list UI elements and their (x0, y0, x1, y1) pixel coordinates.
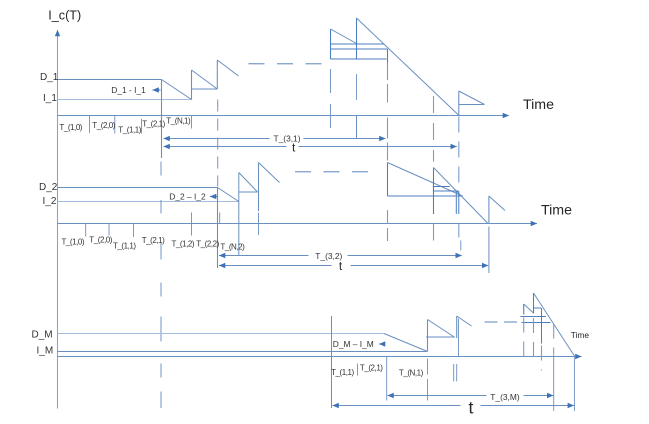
svg-text:T_(2,1): T_(2,1) (142, 236, 165, 245)
svg-text:T_(1,2): T_(1,2) (172, 239, 195, 248)
svg-text:I_2: I_2 (43, 196, 57, 207)
svg-text:D_2: D_2 (39, 182, 58, 193)
svg-text:D_1 - I_1: D_1 - I_1 (111, 85, 146, 95)
svg-text:T_(N,2): T_(N,2) (220, 243, 245, 252)
svg-text:T_(3,M): T_(3,M) (490, 392, 520, 402)
svg-text:D_2 – I_2: D_2 – I_2 (169, 192, 206, 202)
svg-text:I_M: I_M (37, 345, 54, 356)
svg-text:T_(1,1): T_(1,1) (113, 241, 136, 250)
svg-text:T_(3,1): T_(3,1) (274, 134, 301, 144)
svg-text:T_(2,1): T_(2,1) (360, 363, 383, 372)
svg-text:T_(N,1): T_(N,1) (166, 116, 191, 125)
svg-text:T_(2,2): T_(2,2) (196, 239, 219, 248)
svg-text:T_(1,1): T_(1,1) (331, 368, 354, 377)
svg-text:T_(2,1): T_(2,1) (142, 120, 165, 129)
svg-text:I_1: I_1 (43, 93, 57, 104)
svg-text:D_M – I_M: D_M – I_M (333, 339, 374, 349)
svg-text:D_1: D_1 (40, 72, 59, 83)
svg-text:I_c(T): I_c(T) (48, 9, 81, 23)
svg-text:T_(N,1): T_(N,1) (399, 368, 424, 377)
svg-text:T_(2,0): T_(2,0) (92, 121, 115, 130)
svg-text:Time: Time (523, 97, 554, 113)
svg-text:T_(2,0): T_(2,0) (89, 235, 112, 244)
svg-text:T_(1,0): T_(1,0) (59, 123, 82, 132)
svg-text:T_(1,0): T_(1,0) (62, 237, 85, 246)
svg-text:t: t (469, 398, 474, 418)
svg-text:t: t (339, 259, 343, 273)
svg-text:T_(1,1): T_(1,1) (118, 125, 141, 134)
svg-text:Time: Time (541, 203, 572, 219)
svg-text:D_M: D_M (32, 330, 53, 341)
svg-text:Time: Time (571, 330, 590, 340)
